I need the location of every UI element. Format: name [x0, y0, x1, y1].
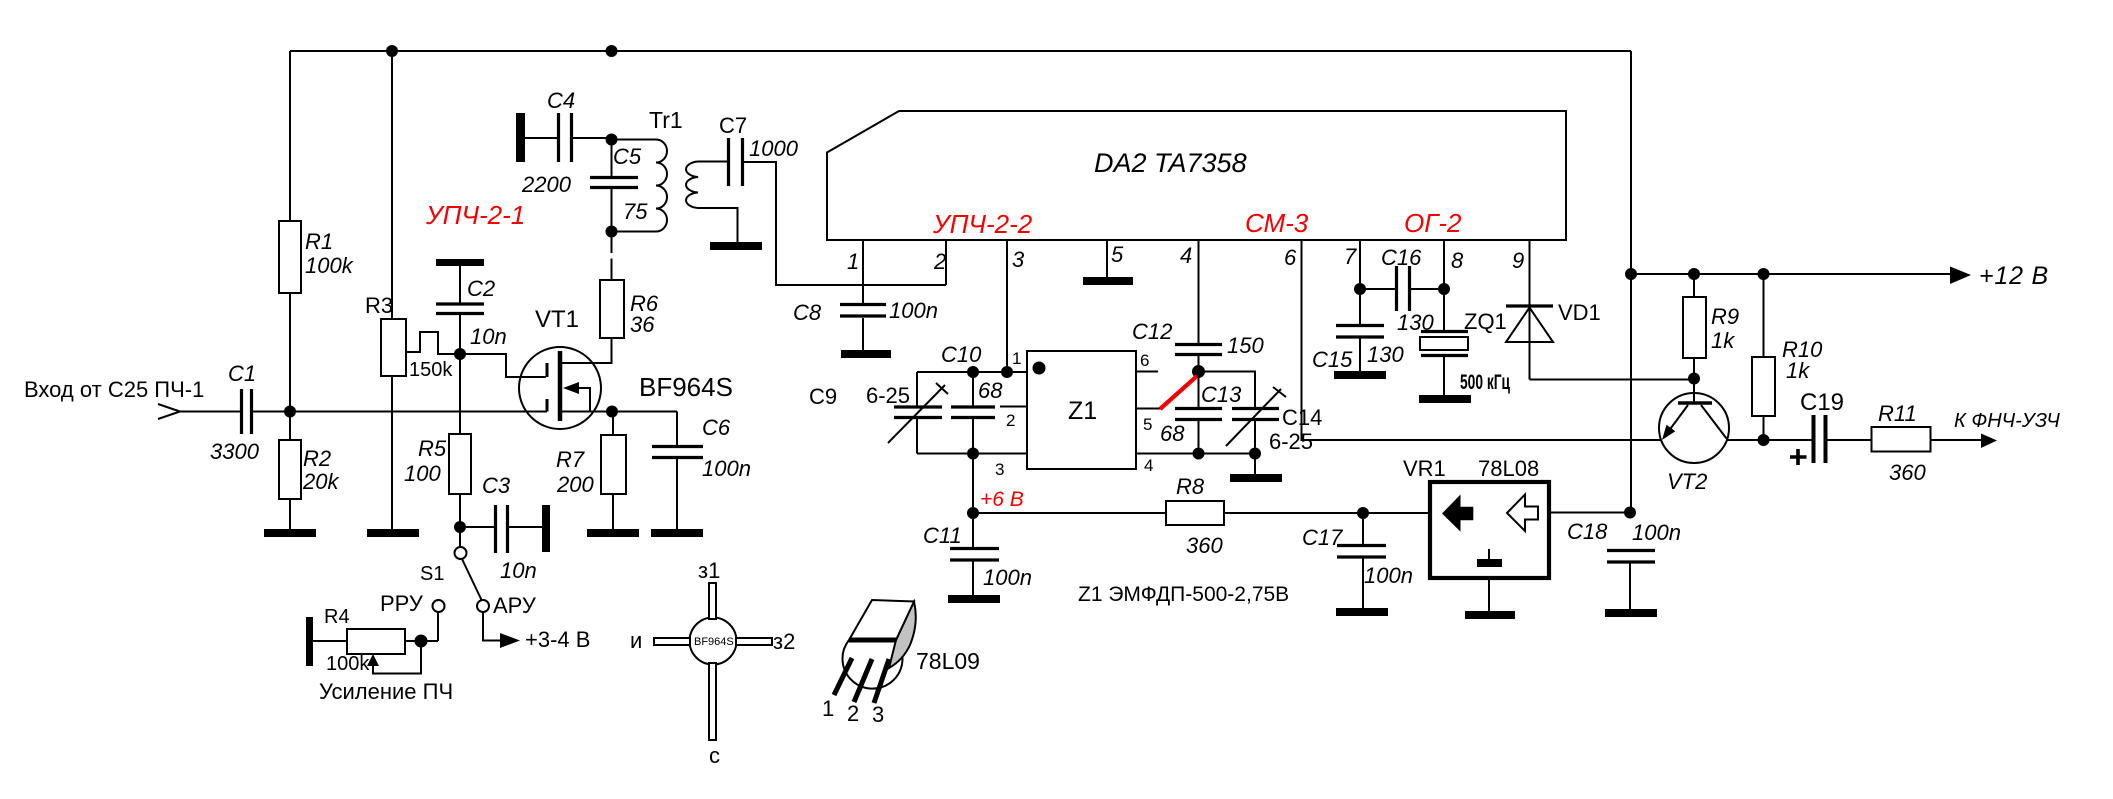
- svg-text:1: 1: [1012, 349, 1021, 368]
- svg-text:Tr1: Tr1: [649, 107, 683, 133]
- svg-text:УПЧ-2-2: УПЧ-2-2: [932, 209, 1033, 239]
- svg-text:и: и: [630, 628, 642, 653]
- pin 6 DA2 wire to VT2: [1302, 240, 1662, 440]
- svg-text:360: 360: [1186, 533, 1223, 558]
- svg-text:VR1: VR1: [1403, 456, 1446, 481]
- diode VD1: [1506, 304, 1553, 307]
- wire top supply rail: [290, 50, 1631, 52]
- regulator VR1 78L08: [1430, 482, 1549, 578]
- svg-text:9: 9: [1512, 248, 1524, 273]
- svg-text:C17: C17: [1302, 525, 1343, 550]
- capacitor C4 chassis bar: [516, 113, 525, 162]
- svg-text:6: 6: [1140, 351, 1149, 370]
- svg-text:C12: C12: [1132, 319, 1172, 344]
- pin 1 DA2: [862, 240, 864, 303]
- capacitor C5: [611, 140, 613, 176]
- node junction +6V: [967, 507, 979, 519]
- package 78L09: [843, 640, 903, 689]
- svg-text:СМ-3: СМ-3: [1245, 208, 1309, 238]
- svg-text:100n: 100n: [889, 298, 938, 323]
- svg-text:3: 3: [995, 460, 1004, 479]
- ground R3: [367, 529, 419, 537]
- crystal ZQ1: [1421, 330, 1468, 333]
- svg-text:100k: 100k: [326, 653, 370, 675]
- resistor R7: [612, 412, 614, 436]
- capacitor C10: [972, 372, 974, 406]
- capacitor C6: [676, 412, 678, 446]
- svg-text:Z1: Z1: [1068, 397, 1097, 425]
- svg-text:C15: C15: [1312, 347, 1353, 372]
- svg-text:R8: R8: [1176, 474, 1205, 499]
- svg-text:DA2 TA7358: DA2 TA7358: [1094, 148, 1247, 178]
- pin 2 DA2: [945, 240, 947, 285]
- svg-text:2: 2: [847, 701, 859, 726]
- svg-text:R2: R2: [303, 446, 331, 471]
- node junction C2/R3/R5/gate1: [454, 348, 466, 360]
- svg-text:Вход от С25 ПЧ-1: Вход от С25 ПЧ-1: [24, 377, 204, 402]
- ground pin5: [1083, 277, 1133, 285]
- svg-text:УПЧ-2-1: УПЧ-2-1: [425, 200, 525, 230]
- node junction top rail at R3: [386, 45, 398, 57]
- resistor R6: [600, 280, 624, 338]
- svg-text:6-25: 6-25: [1269, 429, 1313, 454]
- svg-text:C14: C14: [1282, 405, 1322, 430]
- node input chevron: [158, 404, 180, 419]
- pin 2 Z1 stub: [1000, 406, 1027, 408]
- ground Tr1: [710, 242, 762, 250]
- node junction C1/R1/R2: [284, 406, 296, 418]
- svg-text:1: 1: [822, 696, 834, 721]
- svg-text:C7: C7: [719, 113, 747, 138]
- svg-text:К ФНЧ-УЗЧ: К ФНЧ-УЗЧ: [1954, 410, 2060, 432]
- svg-text:C19: C19: [1800, 389, 1844, 416]
- svg-text:7: 7: [1344, 244, 1357, 269]
- svg-text:20k: 20k: [302, 469, 339, 494]
- svg-text:АРУ: АРУ: [493, 593, 537, 618]
- svg-text:100n: 100n: [1364, 563, 1413, 588]
- wire Z1 bottom rail: [917, 453, 1027, 455]
- svg-text:5: 5: [1143, 415, 1152, 434]
- svg-text:BF964S: BF964S: [639, 372, 733, 402]
- svg-text:C6: C6: [702, 415, 731, 440]
- svg-text:200: 200: [556, 472, 594, 497]
- node arrow +3-4V: [500, 633, 520, 648]
- node junction pin8/C16: [1438, 283, 1450, 295]
- svg-text:68: 68: [978, 378, 1003, 403]
- pin 8 DA2: [1443, 240, 1445, 330]
- svg-text:6-25: 6-25: [866, 383, 910, 408]
- resistor R1: [279, 221, 301, 293]
- capacitor C19: [1814, 415, 1826, 463]
- wire R3 tap step: [406, 332, 461, 354]
- node junction C17/VR1: [1357, 507, 1369, 519]
- capacitor C12: [1175, 345, 1222, 355]
- svg-text:5: 5: [1111, 242, 1124, 267]
- pin 6 Z1 stub: [1136, 371, 1158, 373]
- svg-text:R3: R3: [365, 293, 393, 318]
- wire gate1 lead: [460, 354, 546, 377]
- pin 9 DA2: [1529, 240, 1531, 380]
- svg-text:R11: R11: [1878, 401, 1917, 426]
- node junction R4 wiper: [415, 635, 428, 648]
- svg-text:R7: R7: [556, 447, 585, 472]
- svg-text:3300: 3300: [210, 439, 260, 464]
- svg-text:6: 6: [1284, 245, 1297, 270]
- svg-text:C2: C2: [467, 276, 495, 301]
- svg-text:R4: R4: [324, 606, 350, 628]
- resistor R9: [1693, 274, 1695, 297]
- node junction C5/Tr1 bottom: [606, 226, 618, 238]
- svg-text:4: 4: [1144, 456, 1153, 475]
- wire +12V vertical drop right: [1630, 51, 1632, 512]
- svg-text:ОГ-2: ОГ-2: [1404, 208, 1462, 238]
- ground C6: [651, 529, 703, 537]
- svg-text:ZQ1: ZQ1: [1464, 309, 1507, 334]
- resistor R11: [1872, 427, 1931, 452]
- svg-text:100: 100: [404, 461, 441, 486]
- svg-text:78L08: 78L08: [1478, 456, 1539, 481]
- capacitor C18: [1607, 551, 1655, 563]
- pin 4 DA2: [1198, 240, 1200, 343]
- svg-text:+12 В: +12 В: [1979, 262, 2049, 290]
- wire Z1 pin3 down to +6V: [972, 454, 974, 514]
- node arrow +12V: [1950, 267, 1971, 285]
- switch S1: [459, 532, 461, 547]
- wire input line: [180, 411, 547, 413]
- svg-text:36: 36: [630, 312, 655, 337]
- svg-text:8: 8: [1451, 248, 1464, 273]
- capacitor C17: [1362, 513, 1364, 544]
- filter Z1: [1027, 351, 1136, 469]
- potentiometer R4: [306, 617, 313, 666]
- svg-text:R1: R1: [305, 229, 333, 254]
- svg-text:100n: 100n: [983, 565, 1032, 590]
- svg-text:2: 2: [933, 249, 946, 274]
- svg-text:3: 3: [872, 702, 884, 727]
- wire Z1 top rail: [917, 371, 1027, 373]
- svg-text:100k: 100k: [305, 253, 354, 278]
- wire C2 to R5: [459, 354, 461, 434]
- svg-text:+3-4 В: +3-4 В: [525, 627, 590, 652]
- node junction C4/C5/Tr1 top: [606, 134, 618, 146]
- capacitor C2 chassis bar: [436, 259, 484, 266]
- svg-text:2: 2: [1006, 411, 1015, 430]
- capacitor C1: [242, 389, 252, 434]
- capacitor C16: [1360, 288, 1395, 290]
- svg-text:C4: C4: [547, 88, 575, 113]
- svg-text:C5: C5: [613, 144, 642, 169]
- svg-text:C13: C13: [1201, 382, 1242, 407]
- wire Z1 pin4 rail: [1136, 453, 1255, 455]
- capacitor C3: [460, 526, 494, 528]
- svg-text:+6 В: +6 В: [980, 488, 1024, 511]
- svg-text:360: 360: [1889, 460, 1926, 485]
- svg-text:1k: 1k: [1711, 328, 1735, 353]
- svg-text:4: 4: [1180, 243, 1192, 268]
- node junction pin7/C16: [1354, 283, 1366, 295]
- wire red mod pin5: [1136, 408, 1161, 410]
- resistor R5: [449, 434, 471, 494]
- svg-text:150k: 150k: [409, 359, 453, 381]
- node junction C18: [1624, 507, 1636, 519]
- svg-text:с: с: [709, 743, 720, 768]
- node arrow output: [1981, 434, 1997, 449]
- capacitor C13: [1198, 372, 1200, 408]
- svg-text:VD1: VD1: [1558, 300, 1601, 325]
- svg-text:R9: R9: [1711, 304, 1739, 329]
- svg-text:500 кГц: 500 кГц: [1460, 371, 1510, 394]
- svg-text:C1: C1: [228, 361, 256, 386]
- svg-text:130: 130: [1367, 342, 1404, 367]
- svg-text:РРУ: РРУ: [380, 591, 424, 616]
- svg-text:C18: C18: [1567, 519, 1608, 544]
- wire RRU down to R4: [437, 612, 439, 641]
- svg-text:з1: з1: [698, 558, 720, 583]
- capacitor C11: [972, 513, 974, 547]
- trimmer C14: [1199, 372, 1256, 408]
- svg-text:100n: 100n: [1632, 520, 1681, 545]
- svg-text:BF964S: BF964S: [694, 636, 734, 648]
- svg-text:1: 1: [847, 249, 859, 274]
- pin 5 DA2: [1106, 240, 1108, 277]
- svg-text:78L09: 78L09: [916, 648, 980, 674]
- pin 3 DA2: [1006, 240, 1008, 372]
- pinout BF964S: [690, 618, 737, 665]
- wire R1 top lead: [289, 51, 291, 221]
- svg-text:S1: S1: [420, 563, 444, 585]
- node junction R5/C3/S1: [454, 521, 466, 533]
- capacitor C8: [840, 305, 886, 317]
- node junction pin3/Z1: [1001, 366, 1013, 378]
- capacitor C15: [1336, 326, 1384, 338]
- transistor VT2: [1659, 393, 1729, 463]
- node junction top rail at C4/Tr1: [606, 45, 618, 57]
- svg-text:VT2: VT2: [1667, 469, 1707, 494]
- node junction R10/VT2 collector: [1758, 434, 1770, 446]
- svg-text:1000: 1000: [749, 136, 799, 161]
- svg-text:150: 150: [1227, 333, 1264, 358]
- wire ARU to +3-4V: [483, 612, 500, 641]
- capacitor C4: [525, 137, 557, 139]
- op-amp IC DA2 TA7358: [827, 111, 1566, 240]
- ground C13/C14: [1230, 474, 1282, 482]
- svg-text:з2: з2: [773, 629, 795, 654]
- svg-text:C3: C3: [482, 473, 511, 498]
- node junction C10 bottom: [967, 448, 979, 460]
- pin 7 DA2: [1359, 240, 1361, 324]
- wire +12V rail: [1631, 273, 1950, 275]
- wire C5 to R6 dashed: [611, 232, 613, 281]
- svg-text:VT1: VT1: [535, 306, 579, 333]
- node junction C12/C13: [1192, 365, 1205, 378]
- svg-text:R5: R5: [418, 436, 447, 461]
- svg-text:75: 75: [623, 199, 648, 224]
- svg-text:1k: 1k: [1786, 358, 1810, 383]
- capacitor C7: [729, 138, 743, 186]
- svg-text:C11: C11: [923, 523, 962, 548]
- resistor R3: [391, 51, 393, 319]
- ground R2: [264, 529, 316, 537]
- svg-text:Z1 ЭМФДП-500-2,75В: Z1 ЭМФДП-500-2,75В: [1078, 583, 1289, 606]
- svg-text:100n: 100n: [702, 456, 751, 481]
- svg-text:10n: 10n: [470, 324, 507, 349]
- svg-text:C10: C10: [941, 342, 982, 367]
- svg-text:10n: 10n: [500, 558, 537, 583]
- svg-text:3: 3: [1012, 247, 1025, 272]
- node junction VD1/R9/VT2 base: [1688, 373, 1700, 385]
- resistor R2: [289, 412, 291, 441]
- svg-text:2200: 2200: [521, 172, 572, 197]
- trimmer C9: [916, 372, 918, 406]
- resistor R10: [1763, 274, 1765, 357]
- capacitor C2: [459, 266, 461, 303]
- svg-text:68: 68: [1160, 421, 1185, 446]
- transistor VT1 BF964S: [519, 347, 601, 429]
- node junction C10 top: [967, 366, 979, 378]
- svg-text:C16: C16: [1381, 245, 1422, 270]
- svg-text:Усиление ПЧ: Усиление ПЧ: [319, 679, 453, 704]
- svg-text:C9: C9: [809, 384, 837, 409]
- svg-text:C8: C8: [793, 300, 822, 325]
- node junction VT1 source / R7: [606, 406, 618, 418]
- resistor R8: [973, 512, 1166, 514]
- ground R7: [587, 529, 639, 537]
